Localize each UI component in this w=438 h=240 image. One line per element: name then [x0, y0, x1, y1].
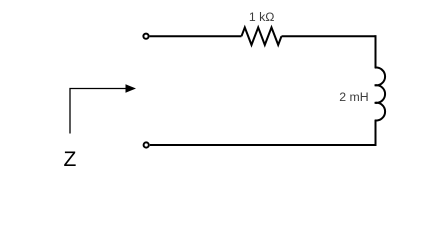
svg-text:1 kΩ: 1 kΩ — [249, 10, 275, 24]
impedance arrow head — [126, 84, 137, 92]
svg-text:2 mH: 2 mH — [339, 90, 368, 104]
wire: right vertical lower — [375, 120, 377, 146]
node: top-left terminal — [143, 34, 148, 39]
impedance arrow (vertical leg) — [70, 89, 127, 134]
node: bottom-left terminal — [144, 142, 149, 147]
inductor L (2 mH) coil — [375, 68, 385, 121]
wire: top-left horizontal — [150, 35, 242, 37]
wire: bottom horizontal — [150, 144, 377, 146]
resistor R (1 kOhm) zigzag — [242, 27, 282, 45]
wire: right vertical upper — [375, 35, 377, 68]
wire: top-right horizontal — [282, 35, 376, 37]
svg-text:Z: Z — [64, 148, 77, 171]
